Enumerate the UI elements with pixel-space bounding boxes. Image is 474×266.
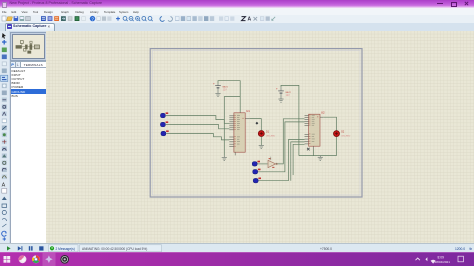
logic state D5: [253, 169, 261, 174]
LED D2 (red): [334, 131, 351, 138]
preview window: [10, 32, 47, 62]
wire bat1 drop to IC1 top: [239, 97, 241, 113]
svg-text:+7500.0: +7500.0: [320, 247, 332, 251]
U1 left pins group2: [229, 137, 234, 147]
svg-text:8:09: 8:09: [438, 255, 445, 259]
U2 pin names: [312, 115, 315, 142]
selector header buttons P L: [10, 61, 17, 68]
wire bat1 to ground rail: [224, 97, 240, 156]
title bar app icon: [2, 2, 7, 7]
gate U3 buffer: [268, 157, 277, 168]
U2 right pin: [320, 116, 323, 118]
junction dot near LED1: [255, 122, 258, 125]
U1 bottom pin: [234, 152, 236, 155]
left vertical toolbar: [0, 31, 10, 243]
svg-text:ANIMATING: 00:00:42.500000 (CP: ANIMATING: 00:00:42.500000 (CPU load 5%): [82, 247, 147, 251]
wire U1 to LED1: [250, 119, 262, 131]
status / animation bar: [0, 243, 474, 253]
toolbar: [0, 15, 474, 24]
logic state D1: [160, 112, 168, 117]
title text: [10, 1, 102, 5]
schematic canvas: [46, 31, 474, 243]
svg-text:A: A: [2, 182, 6, 188]
wire battery2 loop: [281, 85, 299, 155]
object selector panel: [9, 31, 47, 243]
battery BAT1: [213, 81, 229, 91]
U2 origin marker: [307, 148, 310, 151]
U1 left pins group1: [229, 116, 234, 130]
ground under battery1: [215, 90, 220, 97]
wire gate out to U2: [276, 119, 305, 164]
svg-text:28/04/2021: 28/04/2021: [435, 260, 451, 264]
wire D3 to U1: [166, 134, 229, 140]
wire D5 to U2: [258, 122, 305, 172]
svg-text:LED-RED: LED-RED: [341, 136, 351, 138]
wire D4 to gate: [258, 163, 268, 165]
ground under battery2: [278, 95, 283, 102]
svg-text:th: th: [470, 247, 473, 251]
logic state D3: [161, 130, 169, 135]
svg-text:12V: 12V: [286, 95, 291, 97]
U1 pin numbers: [235, 115, 244, 147]
logic state D4: [252, 161, 260, 166]
wire U2 to LED2: [323, 117, 336, 130]
ground on rail at U2: [318, 156, 323, 161]
U2 bottom pin: [313, 146, 315, 150]
wire U2 bottom pin: [313, 150, 315, 156]
object list: [10, 67, 47, 245]
svg-text:BAT2: BAT2: [286, 91, 292, 94]
wire bottom rail U2: [299, 155, 337, 157]
logic state D6: [253, 178, 261, 183]
svg-text:+: +: [276, 87, 278, 91]
svg-text:1200.0: 1200.0: [455, 247, 465, 251]
ground under LED1: [259, 145, 264, 148]
U1 pin names: [237, 115, 240, 144]
svg-text:12V: 12V: [223, 90, 228, 92]
wire D6 to U2: [259, 140, 305, 181]
wire D2 to U1: [166, 125, 230, 129]
svg-text:U2: U2: [321, 111, 325, 115]
wire LED2 to rail: [336, 137, 338, 156]
svg-text:LED-RED: LED-RED: [266, 135, 276, 137]
schematic capture tab: [5, 23, 55, 32]
wire LED1 to ground: [260, 137, 262, 146]
U2 left pins group2: [305, 134, 309, 144]
ground under vertical rail: [222, 156, 227, 161]
svg-text:+: +: [213, 81, 215, 85]
svg-text:BAT1: BAT1: [223, 86, 229, 89]
svg-text:U1: U1: [246, 109, 250, 113]
menu bar: [0, 8, 474, 16]
selector header label: [20, 61, 47, 68]
U2 left pins group1: [305, 116, 309, 126]
tab bar: [0, 23, 474, 33]
window controls: [437, 3, 443, 4]
svg-text:2 Message(s): 2 Message(s): [56, 247, 75, 251]
title bar: [0, 0, 474, 8]
wire battery1 top loop: [218, 81, 240, 97]
wire D1 to U1: [166, 116, 230, 124]
U2 pin numbers: [309, 115, 318, 144]
LED D1 (red): [258, 131, 275, 138]
logic state D2: [160, 121, 168, 126]
wire U2 lower pin stub A: [291, 142, 305, 181]
windows taskbar: [0, 252, 474, 266]
IC U1: [234, 109, 250, 152]
wire U2 lower pin stub B: [293, 144, 304, 175]
U1 right pin: [245, 118, 250, 120]
sheet border: [150, 49, 362, 197]
IC U2: [309, 111, 325, 147]
battery BAT2: [276, 87, 292, 97]
